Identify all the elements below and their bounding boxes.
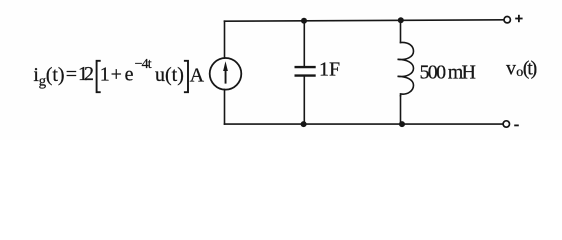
wire bottom rail — [225, 123, 503, 125]
svg-text:−4t: −4t — [135, 57, 152, 72]
svg-text:1: 1 — [100, 63, 110, 85]
svg-text:v: v — [506, 58, 516, 80]
svg-text:u(t): u(t) — [155, 64, 184, 86]
svg-text:A: A — [190, 64, 205, 86]
svg-text:(t): (t) — [523, 58, 538, 80]
capacitor C plates — [295, 67, 316, 76]
bracket left of equation — [97, 61, 101, 92]
svg-text:12: 12 — [78, 63, 94, 85]
current source Ig circle — [210, 58, 242, 90]
svg-text:(t): (t) — [46, 64, 65, 86]
capacitor bottom lead — [303, 77, 305, 125]
terminal bottom open circle — [503, 121, 509, 127]
inductor L coil — [398, 42, 414, 95]
label ig(t) equation — [33, 57, 204, 89]
node bottom inductor junction — [399, 121, 405, 127]
svg-text:=: = — [66, 63, 77, 85]
wire left branch top — [224, 21, 226, 58]
inductor top lead — [400, 20, 402, 42]
wire left branch bottom — [224, 90, 226, 125]
svg-text:e: e — [125, 63, 134, 85]
terminal top open circle — [504, 17, 510, 23]
label plus sign — [515, 15, 522, 22]
current source arrow — [223, 61, 228, 83]
node bottom capacitor junction — [301, 121, 307, 127]
node top inductor junction — [398, 17, 404, 23]
svg-text:500 mH: 500 mH — [420, 61, 477, 83]
capacitor top lead — [303, 21, 305, 66]
bracket right of equation — [184, 61, 188, 92]
svg-text:1F: 1F — [319, 58, 340, 80]
svg-text:+: + — [111, 63, 122, 85]
wire top rail — [225, 20, 505, 21]
label minus sign — [514, 124, 519, 126]
node top capacitor junction — [301, 18, 307, 24]
inductor bottom lead — [400, 96, 402, 124]
